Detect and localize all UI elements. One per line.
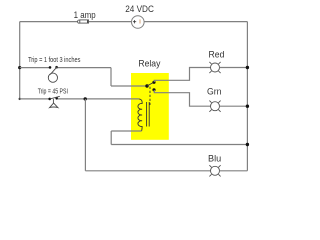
- wire top-mid horizontal: [89, 21, 132, 23]
- lamp Red: [209, 62, 220, 73]
- relay K1 core lines: [146, 102, 148, 127]
- wire top-right horizontal: [144, 21, 247, 23]
- wire top-left horizontal: [20, 21, 78, 23]
- fuse F1 body: [78, 20, 89, 23]
- wire down from level row: [110, 68, 112, 86]
- wire left bus vertical: [19, 22, 21, 99]
- relay K1 contact pivot: [145, 84, 148, 87]
- pressure switch S2: [48, 96, 59, 107]
- wire coil return left: [111, 130, 141, 132]
- relay K1 lower contact: [152, 88, 155, 91]
- wire grn lamp to bus: [220, 105, 248, 107]
- lamp Grn: [209, 101, 220, 112]
- wire right bus vertical: [246, 22, 248, 171]
- relay highlight box: [131, 73, 169, 140]
- svg-text:Trip = 1 foot 3 inches: Trip = 1 foot 3 inches: [28, 57, 81, 64]
- svg-text:Relay: Relay: [138, 59, 160, 69]
- wire blu branch vertical: [84, 99, 86, 171]
- wire pressure row right to coil: [58, 98, 139, 100]
- wire lower contact stub: [154, 90, 210, 106]
- relay K1 armature arm: [147, 82, 154, 86]
- svg-text:24 VDC: 24 VDC: [125, 4, 154, 15]
- svg-text:Trip = 45 PSI: Trip = 45 PSI: [38, 89, 68, 96]
- wire pressure row left: [20, 98, 49, 100]
- node junction on left bus at level switch: [18, 66, 21, 69]
- wire upper contact stub: [154, 68, 210, 83]
- relay K1 armature dashed link: [149, 87, 151, 106]
- wire blu row left: [85, 170, 210, 172]
- relay K1 upper contact: [152, 81, 155, 84]
- node junction red/bus: [246, 66, 249, 69]
- node corner left bus bottom: [19, 98, 21, 100]
- svg-text:Blu: Blu: [208, 153, 221, 163]
- node junction coil-return/bus: [246, 143, 249, 146]
- wire relay common feed: [111, 85, 147, 87]
- wire blu lamp to bus: [220, 170, 248, 172]
- wire level-switch row left: [20, 67, 49, 69]
- wire red lamp to bus: [220, 67, 248, 69]
- svg-text:1 amp: 1 amp: [74, 10, 96, 20]
- wire coil return down: [110, 131, 112, 145]
- wire coil return to right bus: [111, 144, 247, 146]
- lamp Blu: [209, 165, 220, 176]
- svg-text:Red: Red: [209, 50, 225, 60]
- source V1 24VDC circle: [132, 16, 145, 29]
- relay K1 coil: [138, 99, 142, 131]
- node junction blu branch: [84, 97, 87, 100]
- level switch S1: [48, 66, 58, 82]
- wire level-switch row right: [58, 67, 111, 69]
- node junction grn/bus: [246, 105, 249, 108]
- svg-text:Grn: Grn: [207, 86, 222, 96]
